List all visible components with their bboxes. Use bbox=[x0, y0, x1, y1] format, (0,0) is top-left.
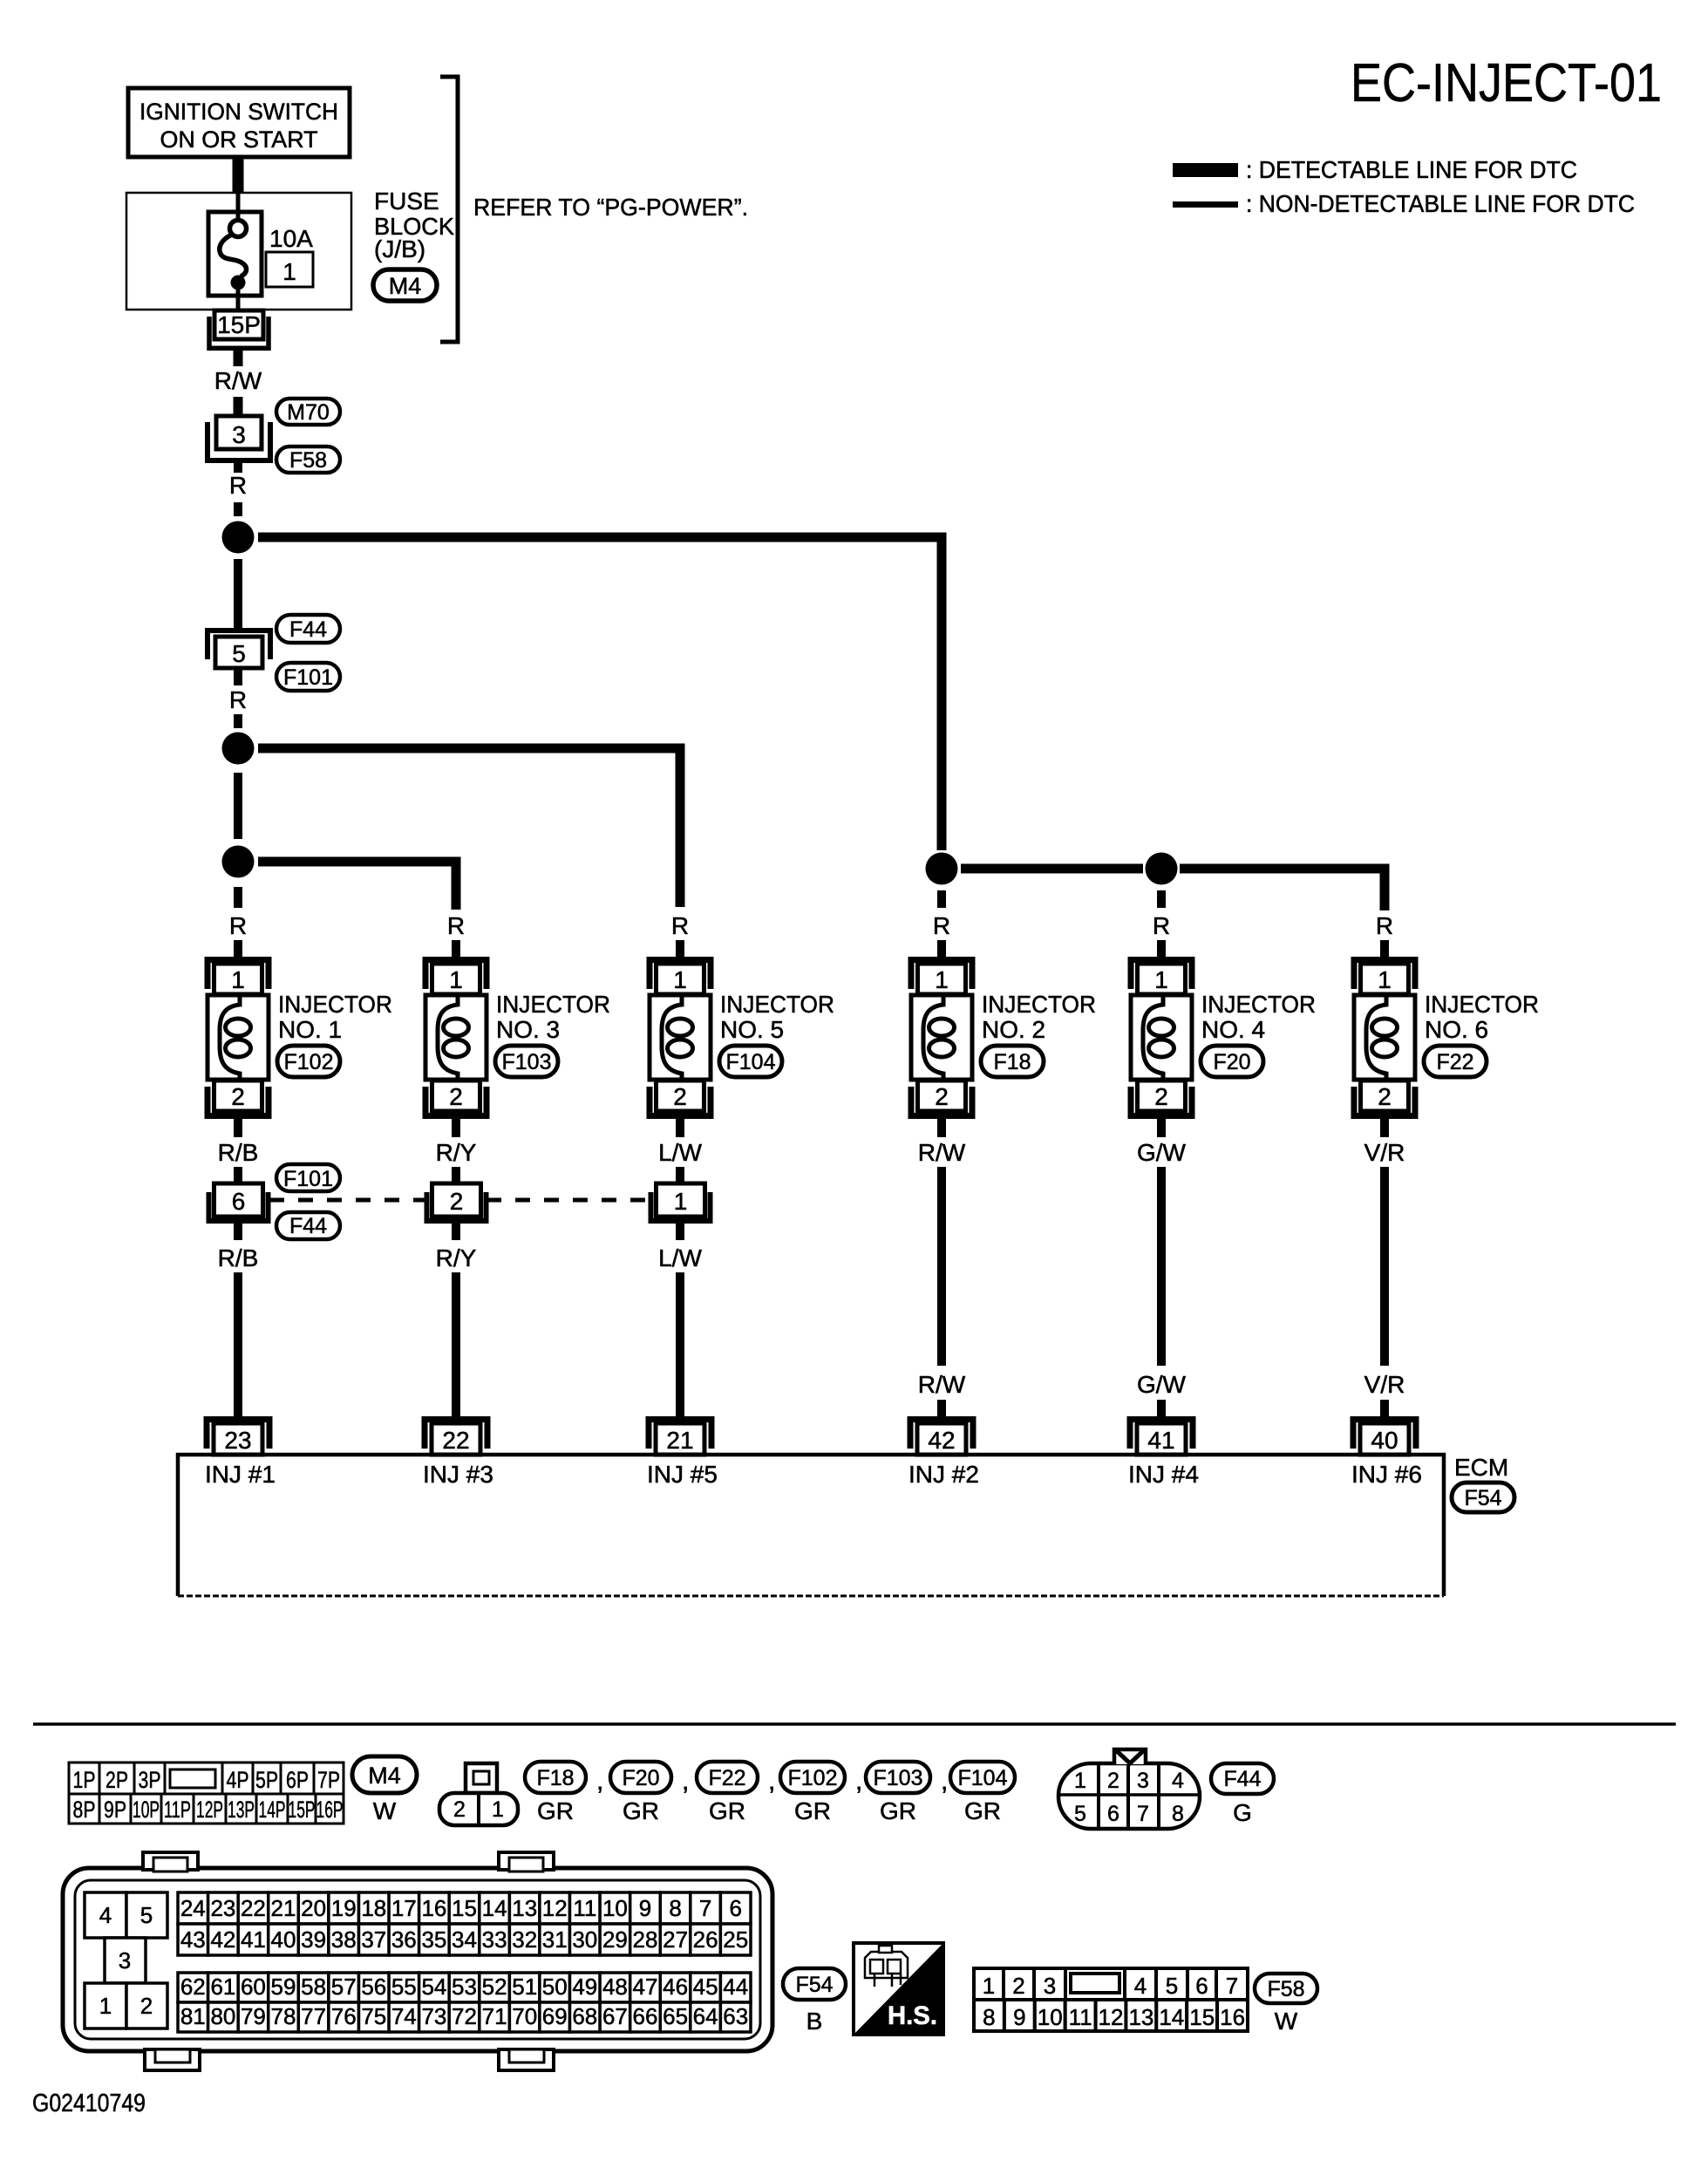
figure id G02410749 bbox=[32, 2090, 146, 2117]
svg-text:48: 48 bbox=[602, 1974, 628, 2000]
harness connector 2 (F101/F44) bbox=[427, 1183, 487, 1221]
svg-text:66: 66 bbox=[633, 2003, 658, 2029]
svg-text:61: 61 bbox=[210, 1974, 235, 2000]
svg-text:22: 22 bbox=[442, 1427, 469, 1454]
svg-text:R: R bbox=[671, 912, 689, 939]
svg-text:F102: F102 bbox=[788, 1766, 838, 1790]
wire below injector NO. 2 bbox=[937, 1117, 946, 1137]
injector label NO. 1 bbox=[278, 991, 392, 1043]
wire into fuse (thin) bbox=[236, 193, 241, 222]
svg-text:11: 11 bbox=[1069, 2004, 1092, 2030]
injector NO. 3 pin 1 connector bbox=[425, 960, 487, 995]
svg-text:38: 38 bbox=[331, 1926, 357, 1953]
svg-text:35: 35 bbox=[421, 1926, 446, 1953]
svg-text:1: 1 bbox=[99, 1993, 112, 2019]
ECM pin 22 connector bbox=[425, 1420, 487, 1456]
wire color label R/Y bbox=[436, 1139, 477, 1166]
ECM connector keying cells bbox=[85, 1892, 167, 2028]
svg-text:,: , bbox=[682, 1767, 689, 1796]
svg-text:4: 4 bbox=[99, 1902, 112, 1928]
svg-text:5P: 5P bbox=[255, 1767, 278, 1793]
svg-text:NO. 4: NO. 4 bbox=[1201, 1016, 1265, 1043]
svg-text:1: 1 bbox=[935, 966, 949, 993]
svg-text:NO. 5: NO. 5 bbox=[720, 1016, 784, 1043]
svg-text:3P: 3P bbox=[139, 1767, 161, 1793]
connector oval F104 bbox=[719, 1046, 782, 1077]
wire R to injector NO. 3 bbox=[452, 940, 460, 958]
wire below injector NO. 3 bbox=[452, 1117, 460, 1137]
svg-text:7: 7 bbox=[699, 1895, 711, 1921]
svg-text:23: 23 bbox=[210, 1895, 235, 1921]
svg-text:54: 54 bbox=[421, 1974, 446, 2000]
svg-text:12: 12 bbox=[542, 1895, 568, 1921]
svg-text:INJ #2: INJ #2 bbox=[908, 1461, 979, 1488]
svg-text:R: R bbox=[1376, 912, 1393, 939]
injector NO. 6 coil body bbox=[1354, 995, 1415, 1080]
wire to harness connector 2 bbox=[452, 1167, 460, 1183]
svg-text:40: 40 bbox=[1371, 1427, 1398, 1454]
wire dash below J5 bbox=[1157, 890, 1166, 908]
svg-text:4: 4 bbox=[1172, 1769, 1184, 1793]
svg-text:F58: F58 bbox=[289, 448, 327, 473]
svg-text:1: 1 bbox=[1378, 966, 1392, 993]
svg-text:2: 2 bbox=[1012, 1973, 1024, 1999]
wire color label L/W bbox=[658, 1139, 702, 1166]
svg-text:F58: F58 bbox=[1267, 1977, 1304, 2001]
wire color label L/W lower bbox=[658, 1244, 702, 1272]
wire color label G/W bbox=[1137, 1139, 1187, 1166]
connector oval F102 bbox=[277, 1046, 340, 1077]
svg-text:56: 56 bbox=[361, 1974, 386, 2000]
injector NO. 2 coil body bbox=[911, 995, 972, 1080]
wire below injector NO. 5 bbox=[676, 1117, 684, 1137]
fuse block label FUSE BLOCK (J/B) bbox=[374, 187, 454, 262]
svg-text:R: R bbox=[229, 912, 247, 939]
svg-text:27: 27 bbox=[663, 1926, 688, 1953]
injector NO. 1 coil body bbox=[208, 995, 269, 1080]
svg-text:F104: F104 bbox=[726, 1050, 776, 1074]
svg-text:5: 5 bbox=[1074, 1802, 1086, 1826]
comma separator bbox=[596, 1767, 603, 1796]
injector label NO. 2 bbox=[982, 991, 1096, 1043]
separator line bbox=[33, 1722, 1676, 1726]
wire R to injector NO. 5 bbox=[676, 940, 684, 958]
svg-text:69: 69 bbox=[542, 2003, 568, 2029]
svg-text:64: 64 bbox=[693, 2003, 718, 2029]
wire color label R col5 bbox=[1153, 912, 1170, 939]
injector NO. 4 pin 2 connector bbox=[1131, 1081, 1192, 1116]
connector oval F22 bbox=[1424, 1046, 1487, 1077]
svg-text:R/W: R/W bbox=[214, 367, 262, 394]
wire bus J4 to J5 bbox=[961, 864, 1143, 874]
ECM pin 40 connector bbox=[1353, 1420, 1416, 1456]
svg-text:W: W bbox=[1275, 2008, 1298, 2035]
wire color label R col3 bbox=[671, 912, 689, 939]
svg-text:13P: 13P bbox=[228, 1797, 255, 1823]
svg-text:42: 42 bbox=[928, 1427, 955, 1454]
svg-text:26: 26 bbox=[693, 1926, 718, 1953]
svg-text:3: 3 bbox=[1137, 1769, 1149, 1793]
svg-text:F18: F18 bbox=[993, 1050, 1031, 1074]
svg-text:16P: 16P bbox=[316, 1797, 344, 1823]
svg-text:2: 2 bbox=[231, 1083, 245, 1110]
wire color label R/B lower bbox=[218, 1244, 259, 1272]
svg-text:21: 21 bbox=[666, 1427, 693, 1454]
svg-text:1: 1 bbox=[1154, 966, 1168, 993]
junction J5 bbox=[1146, 853, 1178, 885]
svg-text:12: 12 bbox=[1099, 2004, 1124, 2030]
svg-text:10P: 10P bbox=[133, 1797, 160, 1823]
svg-text:58: 58 bbox=[301, 1974, 326, 2000]
svg-text:M4: M4 bbox=[389, 273, 422, 299]
svg-text:65: 65 bbox=[663, 2003, 688, 2029]
svg-text:9P: 9P bbox=[104, 1797, 126, 1823]
svg-text:15: 15 bbox=[1189, 2004, 1215, 2030]
svg-text:2: 2 bbox=[140, 1993, 153, 2019]
svg-text:R/Y: R/Y bbox=[436, 1244, 477, 1272]
svg-text:1: 1 bbox=[282, 258, 296, 285]
svg-text:1: 1 bbox=[449, 966, 463, 993]
svg-text:37: 37 bbox=[361, 1926, 386, 1953]
ECM pin label INJ #1 bbox=[205, 1461, 276, 1488]
svg-text:NO. 1: NO. 1 bbox=[278, 1016, 342, 1043]
injector label NO. 4 bbox=[1201, 991, 1316, 1043]
svg-text:F54: F54 bbox=[1464, 1486, 1501, 1510]
connector oval F58 bbox=[276, 447, 340, 473]
svg-text:INJECTOR: INJECTOR bbox=[278, 991, 392, 1018]
svg-text:1: 1 bbox=[1074, 1769, 1086, 1793]
svg-text:14P: 14P bbox=[259, 1797, 286, 1823]
wire color label R/W lower bbox=[918, 1371, 966, 1398]
connector oval F18 bbox=[981, 1046, 1044, 1077]
wire J1 to connector 5 bbox=[234, 559, 242, 629]
svg-text:INJ #4: INJ #4 bbox=[1128, 1461, 1199, 1488]
injector label NO. 6 bbox=[1425, 991, 1539, 1043]
svg-text:G02410749: G02410749 bbox=[32, 2090, 146, 2117]
wire bus J1 to col4 bbox=[258, 537, 942, 850]
ECM connector pin grid lower (pins 44-81) bbox=[178, 1973, 751, 2032]
injector connector face (2-1) bbox=[439, 1763, 518, 1825]
connector oval F44 (face) bbox=[1211, 1763, 1274, 1826]
svg-text:78: 78 bbox=[271, 2003, 296, 2029]
dashed harness link 6-2 bbox=[269, 1198, 426, 1203]
svg-text:R: R bbox=[229, 472, 247, 499]
injector NO. 1 pin 1 connector bbox=[208, 960, 269, 995]
svg-text:GR: GR bbox=[623, 1797, 659, 1824]
svg-text:25: 25 bbox=[723, 1926, 748, 1953]
svg-text:33: 33 bbox=[482, 1926, 507, 1953]
harness connector 6 (F101/F44) bbox=[209, 1183, 269, 1221]
svg-text:10: 10 bbox=[1038, 2004, 1063, 2030]
wire dash below J4 bbox=[937, 890, 946, 908]
svg-text:7P: 7P bbox=[317, 1767, 340, 1793]
wire to ECM pin 40 bbox=[1380, 1400, 1389, 1419]
svg-text:15P: 15P bbox=[289, 1797, 316, 1823]
svg-text:1: 1 bbox=[492, 1797, 504, 1822]
fuse block M4 dotted box bbox=[126, 193, 351, 310]
svg-text:R/W: R/W bbox=[918, 1371, 966, 1398]
svg-text:57: 57 bbox=[331, 1974, 357, 2000]
svg-text:15: 15 bbox=[452, 1895, 477, 1921]
connector oval F44 (harness) bbox=[276, 1212, 340, 1239]
svg-text:,: , bbox=[855, 1767, 862, 1796]
svg-text:ECM: ECM bbox=[1454, 1454, 1508, 1481]
svg-text:8: 8 bbox=[983, 2004, 995, 2030]
ECM pin label INJ #2 bbox=[908, 1461, 979, 1488]
svg-text:8: 8 bbox=[669, 1895, 681, 1921]
comma separator bbox=[768, 1767, 775, 1796]
connector 15P bbox=[209, 310, 269, 348]
junction J4 bbox=[926, 853, 958, 885]
wire color label R/W bbox=[918, 1139, 966, 1166]
svg-text:63: 63 bbox=[723, 2003, 748, 2029]
svg-text:4: 4 bbox=[1134, 1973, 1147, 1999]
legend non-detectable line sample bbox=[1173, 201, 1238, 208]
connector oval F58 (face) bbox=[1255, 1974, 1317, 2035]
injector NO. 6 pin 2 connector bbox=[1354, 1081, 1415, 1116]
wire color label R bbox=[229, 472, 247, 499]
svg-text:8: 8 bbox=[1172, 1802, 1184, 1826]
svg-text:9: 9 bbox=[1013, 2004, 1025, 2030]
svg-text:1P: 1P bbox=[73, 1767, 96, 1793]
ECM pin 21 connector bbox=[649, 1420, 711, 1456]
svg-text:R: R bbox=[447, 912, 465, 939]
svg-text:,: , bbox=[941, 1767, 948, 1796]
svg-text:80: 80 bbox=[210, 2003, 235, 2029]
svg-text:3: 3 bbox=[232, 421, 246, 448]
wire R to injector NO. 6 bbox=[1380, 940, 1389, 958]
svg-text:13: 13 bbox=[512, 1895, 537, 1921]
wire to harness connector 6 bbox=[234, 1167, 242, 1183]
svg-text:31: 31 bbox=[542, 1926, 568, 1953]
svg-text:R/B: R/B bbox=[218, 1244, 259, 1272]
svg-text:49: 49 bbox=[572, 1974, 597, 2000]
svg-text:6: 6 bbox=[729, 1895, 741, 1921]
svg-text:22: 22 bbox=[241, 1895, 266, 1921]
svg-text:20: 20 bbox=[301, 1895, 326, 1921]
wire below connector 5 bbox=[234, 668, 242, 685]
svg-text:M4: M4 bbox=[368, 1762, 401, 1789]
section bracket bbox=[440, 77, 458, 342]
legend non-detectable line text bbox=[1246, 190, 1635, 217]
svg-text:32: 32 bbox=[512, 1926, 537, 1953]
svg-text:: NON-DETECTABLE LINE FOR DTC: : NON-DETECTABLE LINE FOR DTC bbox=[1246, 190, 1635, 217]
svg-text:5: 5 bbox=[140, 1902, 153, 1928]
comma separator bbox=[682, 1767, 689, 1796]
junction J1 bbox=[222, 522, 255, 554]
ECM pin label INJ #3 bbox=[423, 1461, 493, 1488]
M4 color W bbox=[373, 1797, 397, 1824]
svg-text:52: 52 bbox=[482, 1974, 507, 2000]
svg-text:70: 70 bbox=[512, 2003, 537, 2029]
svg-text:41: 41 bbox=[241, 1926, 266, 1953]
wire V/R long run bbox=[1380, 1167, 1389, 1366]
svg-text:46: 46 bbox=[663, 1974, 688, 2000]
svg-text:(J/B): (J/B) bbox=[374, 235, 425, 262]
wire color label R/W bbox=[214, 367, 262, 394]
injector NO. 3 pin 2 connector bbox=[425, 1081, 487, 1116]
svg-text:INJ #5: INJ #5 bbox=[647, 1461, 718, 1488]
svg-text:F101: F101 bbox=[283, 665, 333, 690]
svg-text:41: 41 bbox=[1147, 1427, 1174, 1454]
wire dash bbox=[234, 502, 242, 516]
wire below connector 3 bbox=[234, 463, 242, 473]
svg-text:R: R bbox=[933, 912, 950, 939]
svg-text:R/W: R/W bbox=[918, 1139, 966, 1166]
wire bus J2 to col3 bbox=[258, 748, 680, 907]
svg-text:53: 53 bbox=[452, 1974, 477, 2000]
svg-text:GR: GR bbox=[537, 1797, 574, 1824]
svg-text:77: 77 bbox=[301, 2003, 326, 2029]
svg-text:4P: 4P bbox=[227, 1767, 249, 1793]
svg-text:: DETECTABLE LINE FOR DTC: : DETECTABLE LINE FOR DTC bbox=[1246, 156, 1577, 183]
connector oval F54 bbox=[1452, 1483, 1514, 1512]
svg-text:24: 24 bbox=[180, 1895, 206, 1921]
svg-text:REFER TO “PG-POWER”.: REFER TO “PG-POWER”. bbox=[473, 194, 748, 221]
injector NO. 4 pin 1 connector bbox=[1131, 960, 1192, 995]
svg-text:F54: F54 bbox=[795, 1973, 833, 1997]
wire color label V/R bbox=[1364, 1139, 1405, 1166]
injector NO. 5 coil body bbox=[650, 995, 711, 1080]
svg-text:EC-INJECT-01: EC-INJECT-01 bbox=[1351, 53, 1662, 113]
wire below injector NO. 1 bbox=[234, 1117, 242, 1137]
connector oval F103 (face) bbox=[866, 1762, 930, 1824]
svg-text:45: 45 bbox=[693, 1974, 718, 2000]
wire color label R col4 bbox=[933, 912, 950, 939]
wire color label R col1 bbox=[229, 912, 247, 939]
wire R/W to connector 3 bbox=[234, 397, 243, 416]
svg-text:INJECTOR: INJECTOR bbox=[720, 991, 834, 1018]
svg-text:F22: F22 bbox=[1436, 1050, 1473, 1074]
svg-text:19: 19 bbox=[331, 1895, 357, 1921]
svg-text:GR: GR bbox=[880, 1797, 916, 1824]
svg-text:2: 2 bbox=[673, 1083, 687, 1110]
wire R/W long run bbox=[937, 1167, 946, 1366]
svg-text:73: 73 bbox=[421, 2003, 446, 2029]
junction J2 bbox=[222, 733, 255, 765]
svg-text:F20: F20 bbox=[1213, 1050, 1250, 1074]
svg-text:INJ #3: INJ #3 bbox=[423, 1461, 493, 1488]
svg-text:55: 55 bbox=[391, 1974, 417, 2000]
wire bus J5 to col6 bbox=[1180, 869, 1385, 910]
svg-text:43: 43 bbox=[180, 1926, 206, 1953]
svg-text:B: B bbox=[806, 2008, 823, 2035]
ECM box bbox=[178, 1455, 1444, 1596]
wire below injector NO. 4 bbox=[1157, 1117, 1166, 1137]
wire to ECM pin 42 bbox=[937, 1400, 946, 1419]
svg-text:F102: F102 bbox=[284, 1050, 334, 1074]
junction J3 bbox=[222, 846, 255, 878]
ECM pin 41 connector bbox=[1130, 1420, 1193, 1456]
svg-text:36: 36 bbox=[391, 1926, 417, 1953]
svg-text:F44: F44 bbox=[1223, 1767, 1261, 1791]
svg-text:INJECTOR: INJECTOR bbox=[1201, 991, 1316, 1018]
wire below injector NO. 6 bbox=[1380, 1117, 1389, 1137]
connector face F44 8-pin bbox=[1058, 1749, 1200, 1829]
svg-text:7: 7 bbox=[1226, 1973, 1238, 1999]
svg-text:1: 1 bbox=[983, 1973, 995, 1999]
svg-text:21: 21 bbox=[271, 1895, 296, 1921]
connector oval F44 bbox=[276, 615, 340, 643]
svg-text:44: 44 bbox=[723, 1974, 748, 2000]
svg-text:V/R: V/R bbox=[1364, 1371, 1405, 1398]
connector oval F101 (harness) bbox=[276, 1164, 340, 1191]
svg-text:F103: F103 bbox=[502, 1050, 552, 1074]
svg-text:W: W bbox=[373, 1797, 397, 1824]
svg-text:,: , bbox=[768, 1767, 775, 1796]
wire below harness connector 1 bbox=[676, 1224, 684, 1240]
svg-text:10: 10 bbox=[602, 1895, 628, 1921]
wire R to injector NO. 4 bbox=[1157, 940, 1166, 958]
wire J2 to J3 bbox=[234, 773, 242, 839]
svg-text:10A: 10A bbox=[269, 225, 313, 252]
ECM label bbox=[1454, 1454, 1508, 1481]
wire color label R/B bbox=[218, 1139, 259, 1166]
svg-text:IGNITION SWITCH: IGNITION SWITCH bbox=[139, 99, 338, 125]
svg-text:7: 7 bbox=[1137, 1802, 1149, 1826]
svg-text:2: 2 bbox=[1107, 1769, 1119, 1793]
connector face F58 grid bbox=[974, 1968, 1248, 2031]
wire G/W long run bbox=[1157, 1167, 1166, 1366]
svg-text:74: 74 bbox=[391, 2003, 417, 2029]
svg-text:2: 2 bbox=[1378, 1083, 1392, 1110]
svg-text:G/W: G/W bbox=[1137, 1371, 1187, 1398]
svg-text:6: 6 bbox=[1107, 1802, 1119, 1826]
wire bus J3 to col2 bbox=[258, 862, 456, 910]
svg-text:62: 62 bbox=[180, 1974, 206, 2000]
legend detectable line sample bbox=[1173, 163, 1238, 177]
connector oval F20 bbox=[1201, 1046, 1263, 1077]
svg-text:NO. 6: NO. 6 bbox=[1425, 1016, 1488, 1043]
svg-text:INJECTOR: INJECTOR bbox=[496, 991, 610, 1018]
svg-text:18: 18 bbox=[361, 1895, 386, 1921]
wire color label R col2 bbox=[447, 912, 465, 939]
svg-text:ON OR START: ON OR START bbox=[160, 126, 318, 153]
svg-text:2P: 2P bbox=[105, 1767, 128, 1793]
svg-text:72: 72 bbox=[452, 2003, 477, 2029]
wire R to injector NO. 1 bbox=[234, 940, 242, 958]
H.S. view symbol bbox=[854, 1943, 943, 2035]
svg-text:6: 6 bbox=[1195, 1973, 1208, 1999]
injector NO. 1 pin 2 connector bbox=[208, 1081, 269, 1116]
svg-text:H.S.: H.S. bbox=[888, 2001, 937, 2030]
svg-text:2: 2 bbox=[450, 1188, 464, 1215]
svg-text:68: 68 bbox=[572, 2003, 597, 2029]
svg-text:R/Y: R/Y bbox=[436, 1139, 477, 1166]
svg-text:GR: GR bbox=[964, 1797, 1001, 1824]
svg-text:12P: 12P bbox=[196, 1797, 223, 1823]
svg-text:,: , bbox=[596, 1767, 603, 1796]
injector NO. 3 coil body bbox=[425, 995, 487, 1080]
connector oval F20 (face) bbox=[610, 1762, 671, 1824]
connector oval F22 (face) bbox=[697, 1762, 758, 1824]
injector label NO. 5 bbox=[720, 991, 834, 1043]
legend detectable line text bbox=[1246, 156, 1577, 183]
svg-text:40: 40 bbox=[271, 1926, 296, 1953]
wire below harness connector 6 bbox=[234, 1224, 242, 1240]
svg-text:51: 51 bbox=[512, 1974, 537, 2000]
connector oval F101 bbox=[276, 663, 340, 691]
wire dash bbox=[234, 714, 242, 728]
svg-text:INJECTOR: INJECTOR bbox=[982, 991, 1096, 1018]
svg-text:67: 67 bbox=[602, 2003, 628, 2029]
svg-text:15P: 15P bbox=[217, 311, 261, 338]
svg-text:29: 29 bbox=[602, 1926, 628, 1953]
svg-text:14: 14 bbox=[482, 1895, 507, 1921]
svg-text:76: 76 bbox=[331, 2003, 357, 2029]
wire to harness connector 1 bbox=[676, 1167, 684, 1183]
svg-text:81: 81 bbox=[180, 2003, 206, 2029]
